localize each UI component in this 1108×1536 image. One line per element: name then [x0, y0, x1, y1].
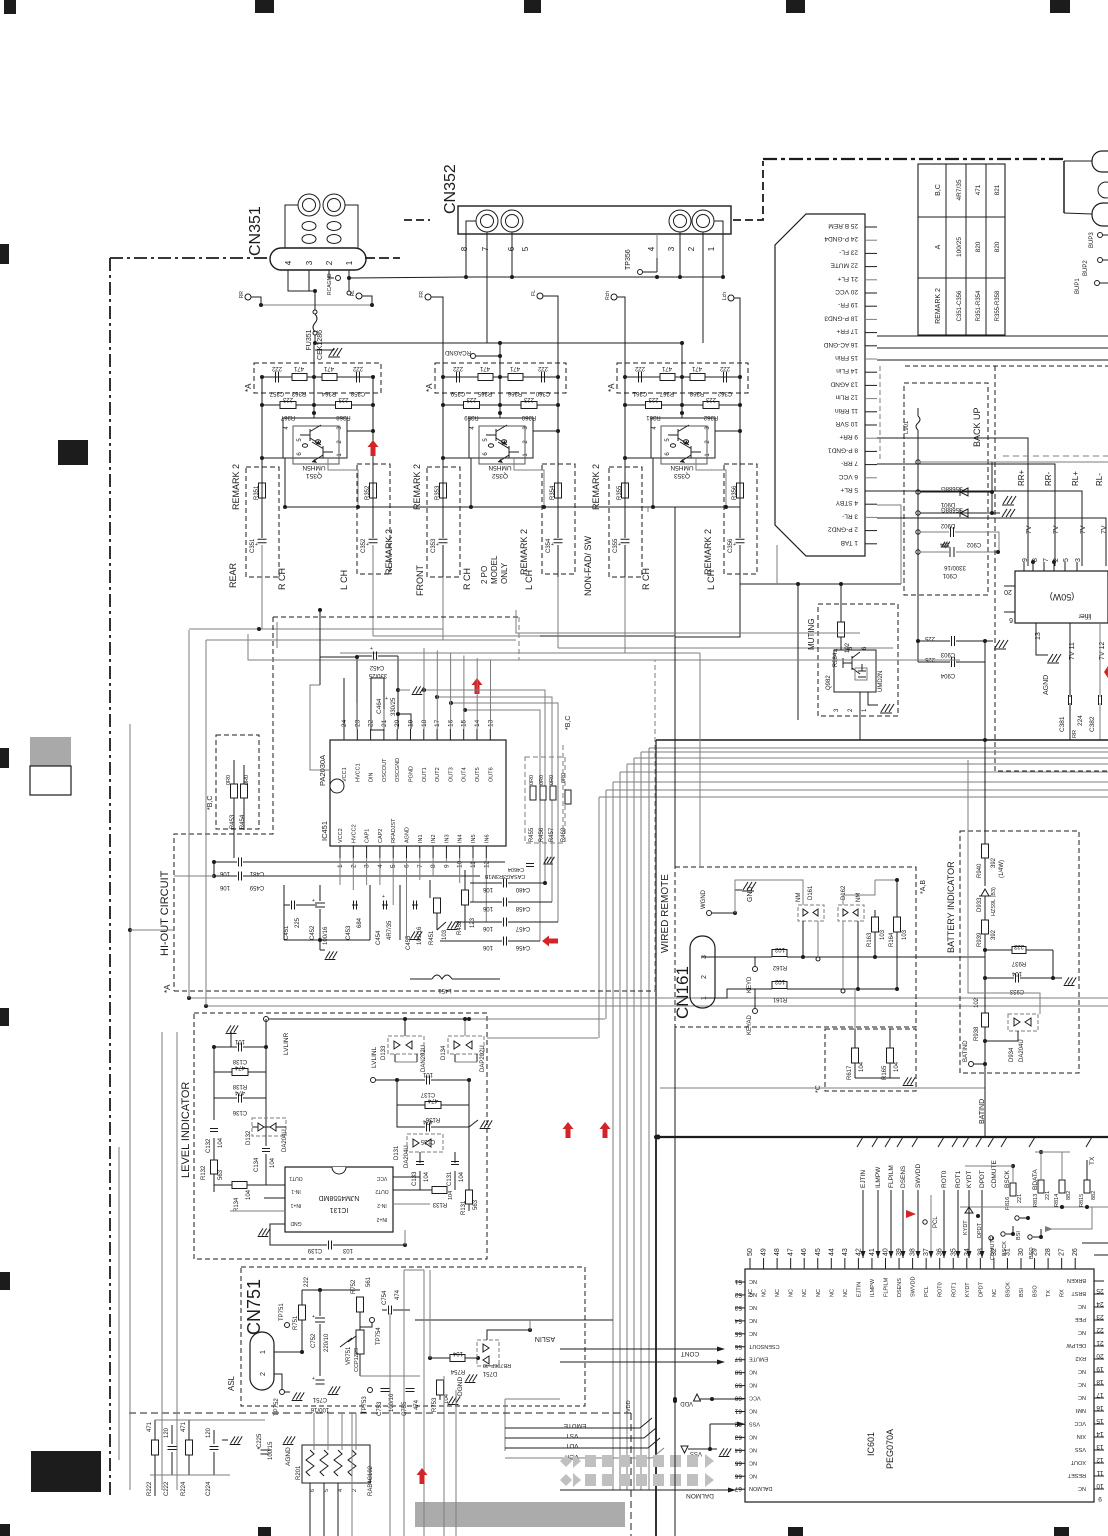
capacitor 222 [723, 372, 725, 383]
svg-text:106: 106 [219, 870, 230, 876]
terminal backup a [916, 460, 920, 464]
svg-text:24 P-GND4: 24 P-GND4 [824, 235, 858, 242]
wire hbus 3 [641, 751, 1108, 753]
svg-text:R360: R360 [521, 414, 536, 420]
svg-text:C134: C134 [254, 1157, 260, 1172]
svg-text:7V: 7V [1053, 525, 1060, 534]
svg-text:REMARK 2: REMARK 2 [591, 464, 601, 510]
wire sig drop [943, 1190, 945, 1258]
pin 50 IC601 stub [749, 1258, 751, 1269]
svg-text:BSO: BSO [1033, 1285, 1039, 1297]
pin 51 IC601 stub [735, 1281, 745, 1283]
wire bsck row [1006, 1226, 1013, 1234]
svg-text:NC: NC [749, 1382, 757, 1388]
wire R134 link [214, 1184, 232, 1186]
wire gnd bus 507 [285, 506, 740, 508]
wire row2 Q352 [443, 404, 558, 406]
diode D751 [477, 1340, 499, 1366]
svg-text:C457: C457 [515, 925, 530, 931]
transistor Q352 inner box [479, 426, 525, 464]
svg-text:4R7/35: 4R7/35 [956, 179, 963, 200]
wire right rail Q351 [372, 377, 374, 538]
svg-text:102: 102 [774, 978, 785, 984]
wire backup right down [984, 641, 986, 740]
svg-text:PEE: PEE [1075, 1316, 1086, 1322]
svg-text:2: 2 [701, 975, 708, 979]
wire out row2 [437, 697, 552, 902]
svg-text:RR+: RR+ [1017, 469, 1026, 486]
capacitor C224 [210, 1446, 219, 1448]
wire left rail Q351 [261, 377, 263, 538]
wire block3 out [647, 507, 649, 512]
svg-text:41: 41 [869, 1248, 876, 1256]
svg-text:NC: NC [1078, 1381, 1086, 1387]
svg-text:7V: 7V [1026, 525, 1033, 534]
dashed box R352 [357, 464, 390, 574]
svg-text:UMH5N: UMH5N [302, 464, 325, 471]
junction row1 Q353 [623, 375, 627, 379]
wire vbus 2 [648, 748, 650, 1490]
pin 56 IC601 stub [735, 1346, 745, 1348]
pin 17 IC451 [436, 729, 438, 740]
wire vbus 6 [619, 772, 621, 1490]
wire hbus 9 [599, 796, 1108, 798]
svg-text:223: 223 [705, 396, 716, 402]
svg-text:Lch: Lch [722, 292, 728, 300]
wire p20 down [397, 690, 399, 729]
svg-text:11: 11 [1096, 1469, 1103, 1476]
svg-text:OSCOUT: OSCOUT [382, 758, 388, 782]
svg-text:7: 7 [1043, 558, 1050, 562]
wire hbus 1 [656, 739, 1108, 741]
svg-text:60: 60 [734, 1395, 742, 1402]
svg-text:222: 222 [304, 1276, 310, 1287]
svg-text:RFADJST: RFADJST [391, 818, 397, 843]
pin 31 IC601 stub [1006, 1258, 1008, 1269]
transistor Q352 symbol a [486, 425, 507, 447]
pin 28 IC601 stub [1047, 1258, 1049, 1269]
pin stub 10 [865, 424, 877, 426]
wire RCAGND to CN352 bus [349, 277, 466, 278]
pin stub 11 [865, 411, 877, 413]
svg-text:DA204U: DA204U [404, 1145, 410, 1168]
pin stub 23 [865, 252, 877, 254]
resistor R136 [425, 1102, 441, 1109]
pin stub 5 [865, 490, 877, 492]
junction row2 Q351 [312, 403, 316, 407]
svg-text:NC: NC [749, 1408, 757, 1414]
wire bl gnd [222, 1439, 228, 1441]
arrowhead sig [876, 1251, 881, 1258]
wire R751 [301, 1290, 303, 1305]
svg-text:C138: C138 [232, 1058, 247, 1064]
wire D133 bot [394, 1054, 396, 1062]
capacitor 222 [356, 372, 358, 383]
capacitor C754 [388, 1306, 390, 1315]
svg-text:TX: TX [1046, 1290, 1052, 1297]
svg-text:51: 51 [734, 1278, 742, 1285]
svg-text:BATTERY INDICATOR: BATTERY INDICATOR [946, 861, 956, 953]
svg-text:ROT0: ROT0 [938, 1282, 944, 1297]
resistor R165 [887, 1048, 894, 1063]
wire main bus 1137 [658, 1136, 1108, 1138]
capacitor C458 [503, 898, 505, 907]
wire bat gray [968, 760, 1040, 1014]
svg-text:KYDT: KYDT [965, 1282, 971, 1297]
svg-text:NC: NC [1078, 1485, 1086, 1491]
svg-text:474: 474 [395, 1289, 401, 1300]
svg-text:*A: *A [607, 383, 616, 392]
pin 41 IC601 stub [871, 1258, 873, 1269]
pin stub 9 [865, 437, 877, 439]
wire lvl top2 [206, 1005, 1108, 1007]
wire asl mid [360, 1375, 420, 1377]
wire emute vert [504, 1399, 506, 1451]
pin 9 IC451b [445, 846, 447, 858]
wire C139 up [404, 1230, 406, 1245]
dashed box HI-OUT left1 [174, 617, 273, 991]
svg-text:VCC: VCC [376, 1175, 387, 1181]
wire Lch in [734, 298, 740, 377]
svg-text:C752: C752 [311, 1333, 317, 1348]
svg-text:D162: D162 [841, 885, 847, 900]
svg-text:6: 6 [1009, 616, 1013, 623]
wire RR+ staircase [877, 438, 1028, 566]
pin 21 IC451 [383, 729, 385, 740]
svg-text:C360: C360 [535, 390, 550, 396]
junction CN352 bus [655, 275, 659, 279]
svg-text:CDMUTE: CDMUTE [991, 1160, 998, 1188]
svg-text:104: 104 [894, 1061, 900, 1072]
svg-text:RR: RR [239, 291, 245, 299]
svg-text:IN2: IN2 [431, 834, 437, 843]
junction row2 Q352 [498, 403, 502, 407]
dashed box R353 [427, 467, 460, 577]
wire d131 down [419, 1152, 421, 1163]
svg-text:0R0: 0R0 [226, 775, 232, 785]
pin stub 7 [865, 464, 877, 466]
svg-text:R352: R352 [365, 485, 371, 500]
svg-text:R937: R937 [1011, 960, 1026, 966]
terminal RCAGND mid [471, 354, 476, 359]
wire tx link [1052, 1207, 1092, 1229]
junction row1 Q351 [260, 375, 264, 379]
wire BUP3 [1103, 234, 1108, 236]
svg-text:IC131: IC131 [330, 1206, 349, 1213]
wire hbus 8 [606, 789, 1108, 791]
wire TP754 [360, 1323, 372, 1327]
svg-text:225: 225 [924, 656, 935, 662]
wire left vert 1 [129, 724, 131, 1490]
capacitor C455 [413, 901, 415, 910]
wire block3 R down [739, 574, 741, 584]
svg-text:C133: C133 [412, 1171, 418, 1186]
wire cn161 row [727, 956, 772, 958]
svg-text:471: 471 [323, 365, 334, 371]
svg-text:RX2: RX2 [1075, 1355, 1086, 1361]
svg-text:NC: NC [802, 1289, 808, 1297]
svg-text:49: 49 [761, 1248, 768, 1256]
capacitor C480 [503, 879, 505, 888]
svg-text:7: 7 [481, 246, 490, 251]
wire nonfad box2 [675, 584, 740, 637]
wire R753 gnd [439, 1395, 441, 1400]
pin 42 IC601 stub [857, 1258, 859, 1269]
svg-text:S5688G: S5688G [941, 506, 963, 512]
wire gc a [319, 940, 321, 950]
junction row2 Q353 [738, 403, 742, 407]
pin 34 IC601 stub [966, 1258, 968, 1269]
svg-text:*A: *A [244, 383, 253, 392]
wire cn751 vert2 [403, 1270, 405, 1536]
svg-text:CONT: CONT [681, 1350, 699, 1357]
terminal BUP2 [1098, 258, 1103, 263]
capacitor C132 [210, 1128, 218, 1130]
wire backup row2 [920, 491, 992, 493]
svg-text:IN+2: IN+2 [376, 1216, 387, 1222]
svg-text:BATIND: BATIND [979, 1099, 986, 1124]
wire p23 left [320, 656, 357, 658]
svg-text:21: 21 [1096, 1339, 1104, 1346]
wire R134 out [247, 1184, 285, 1186]
wire batind [974, 1063, 985, 1065]
transistor Q351 symbol b [312, 440, 333, 463]
svg-text:XIN: XIN [1077, 1433, 1086, 1439]
svg-text:BSI: BSI [1016, 1231, 1022, 1240]
svg-text:38: 38 [910, 1248, 917, 1256]
svg-text:25: 25 [1096, 1287, 1104, 1294]
terminal backup b [916, 490, 920, 494]
svg-text:0R0: 0R0 [549, 775, 555, 785]
terminal Rch [611, 294, 617, 300]
svg-text:223: 223 [338, 396, 349, 402]
terminal Lch [728, 295, 734, 301]
capacitor C353 [439, 538, 448, 540]
svg-text:R451: R451 [429, 930, 435, 945]
wire R138 [214, 1071, 232, 1073]
svg-text:IN4: IN4 [458, 834, 464, 843]
gnd C460 [544, 857, 548, 863]
svg-text:4: 4 [647, 246, 656, 251]
svg-text:R131: R131 [461, 1200, 467, 1215]
svg-text:C136: C136 [232, 1109, 247, 1115]
svg-text:SWVDD: SWVDD [911, 1277, 917, 1298]
pin 19 IC451 [410, 729, 412, 740]
wire C464 top [397, 656, 399, 690]
svg-text:NC: NC [762, 1289, 768, 1297]
pin 65 IC601 stub [735, 1462, 745, 1464]
svg-text:LVLINL: LVLINL [371, 1046, 378, 1068]
resistor R752 [357, 1297, 364, 1312]
junction sgb3 [680, 341, 684, 345]
pin 23 IC451 [356, 729, 358, 740]
svg-text:HVCC2: HVCC2 [351, 824, 357, 843]
svg-text:+: + [312, 898, 315, 904]
svg-text:VCC: VCC [749, 1395, 761, 1401]
svg-text:C131: C131 [447, 1171, 453, 1186]
svg-text:D751: D751 [482, 1370, 497, 1376]
svg-text:224: 224 [1077, 715, 1084, 726]
wire Q right Q351 [347, 430, 373, 432]
svg-text:R365: R365 [477, 390, 492, 396]
IC451 notch [330, 779, 344, 793]
svg-text:NC: NC [1078, 1303, 1086, 1309]
svg-text:471: 471 [293, 365, 304, 371]
wire lvl drop2 [205, 640, 207, 1006]
svg-text:3: 3 [1075, 558, 1082, 562]
registration mark bottom 2 [258, 1527, 271, 1536]
wire C481 [214, 861, 237, 863]
svg-text:17: 17 [1096, 1391, 1104, 1398]
wire lvl top1 [189, 997, 1108, 999]
pin stub 20 [865, 292, 877, 294]
junction WGND [733, 911, 737, 915]
wire RCAGND mid [476, 355, 500, 357]
terminal KYDT2 [965, 1207, 973, 1213]
terminal CDMUTE2 [989, 1236, 993, 1240]
transistor Q982 box [834, 650, 876, 692]
svg-text:392: 392 [991, 857, 997, 868]
svg-text:2: 2 [352, 1489, 358, 1492]
svg-text:L901: L901 [904, 420, 910, 434]
pin 32 IC601 stub [993, 1258, 995, 1269]
pin 45 IC601 stub [817, 1258, 819, 1269]
resistor R163 [872, 917, 879, 932]
wire Q right Q353 [715, 430, 740, 432]
wire sig drop [902, 1190, 904, 1258]
junction Q drop Q352 [469, 505, 473, 509]
resistor R352 [370, 483, 377, 498]
pin stub 12 [865, 398, 877, 400]
pin 13 IC451 [489, 729, 491, 740]
svg-text:C464: C464 [376, 698, 383, 714]
svg-text:FL: FL [531, 290, 537, 296]
svg-text:R814: R814 [1054, 1194, 1060, 1207]
wire vss gnd [710, 1448, 717, 1450]
capacitor C904 [951, 657, 953, 667]
svg-text:+: + [312, 1314, 315, 1320]
terminal BATIND [969, 1062, 974, 1067]
svg-text:AGND: AGND [1043, 675, 1050, 695]
diode D902 [960, 509, 968, 517]
wire IC451 top wires [356, 703, 358, 729]
wire left drop2 [174, 875, 214, 877]
svg-text:*A,B: *A,B [920, 880, 927, 894]
svg-text:CN751: CN751 [244, 1279, 264, 1335]
svg-text:RCAGND: RCAGND [327, 273, 333, 295]
label CDMUTE bus [988, 1137, 994, 1147]
registration mark top 1 [4, 0, 16, 14]
resistor R353 [440, 483, 447, 498]
wire R163 [874, 910, 876, 917]
svg-text:R132: R132 [201, 1165, 207, 1180]
wire CN351 pin2 [329, 270, 334, 278]
terminal backup d [916, 530, 920, 534]
svg-text:104: 104 [459, 1171, 465, 1182]
svg-text:BATIND: BATIND [963, 1040, 969, 1062]
wire RR in [251, 297, 261, 305]
terminal KEYAD [753, 1009, 758, 1014]
svg-text:+: + [385, 696, 388, 702]
wire amp pin11 [1069, 623, 1071, 697]
wire CN751 p1 [274, 1351, 302, 1353]
wire pin RRin right [877, 335, 1108, 337]
svg-text:3 RL-: 3 RL- [842, 512, 858, 519]
svg-text:D132: D132 [246, 1130, 252, 1145]
wire r815 top [1086, 1160, 1088, 1180]
wire TP356 down [656, 258, 658, 272]
resistor R452 [462, 890, 469, 905]
svg-text:C358: C358 [350, 390, 365, 396]
svg-text:C381: C381 [1059, 716, 1066, 732]
IC IC601 box [745, 1269, 1094, 1502]
svg-text:46: 46 [801, 1248, 808, 1256]
wire hbus 4 [634, 757, 1108, 759]
svg-text:64: 64 [734, 1446, 742, 1453]
svg-text:561: 561 [366, 1276, 372, 1287]
svg-text:54: 54 [734, 1317, 742, 1324]
CN351 jack ellipse R2 [302, 235, 316, 244]
svg-text:C901: C901 [942, 572, 957, 578]
calibration gray patch [30, 737, 71, 766]
diode D933 zener [981, 889, 989, 896]
resistor R813 [1038, 1180, 1044, 1193]
resistor R455 [530, 786, 536, 800]
label SWVDD bus [912, 1137, 918, 1147]
svg-text:NC: NC [749, 1304, 757, 1310]
junction RCAGND mid [498, 354, 502, 358]
svg-text:222: 222 [719, 365, 730, 371]
wire R453 up [233, 760, 235, 784]
wire out row1 [424, 690, 545, 883]
diode D161 syms [803, 909, 808, 916]
terminal backup c [916, 511, 920, 515]
pin 29 IC601 stub [1034, 1258, 1036, 1269]
svg-text:684: 684 [357, 917, 363, 928]
pin 55 IC601 stub [735, 1333, 745, 1335]
svg-text:0R0: 0R0 [244, 775, 250, 785]
svg-text:Q353: Q353 [674, 472, 690, 479]
svg-text:225: 225 [295, 917, 301, 928]
wire row2 Q351 [262, 404, 373, 406]
svg-text:471: 471 [691, 365, 702, 371]
wire bl bus [150, 1474, 230, 1476]
svg-text:C137: C137 [420, 1091, 435, 1097]
capacitor 222 [275, 372, 277, 383]
junction C481 l [212, 860, 216, 864]
wire amp pins top [1023, 562, 1025, 571]
wire cn751 vert3 [423, 1270, 425, 1536]
svg-text:DIN: DIN [369, 773, 375, 783]
svg-text:NC: NC [789, 1289, 795, 1297]
svg-text:103: 103 [342, 1247, 353, 1253]
svg-text:RCAGND: RCAGND [444, 349, 471, 355]
label BDATA bus [1029, 1137, 1035, 1147]
svg-text:C352: C352 [361, 538, 367, 553]
wire IC451 p24 [343, 678, 345, 729]
junction Q right Q352 [556, 429, 560, 433]
junction row1 Q352 [556, 375, 560, 379]
wire center drop 2 [699, 653, 701, 867]
pin 40 IC601 stub [885, 1258, 887, 1269]
wire bso row [1033, 1229, 1041, 1237]
pin 53 IC601 stub [735, 1307, 745, 1309]
gray dashed sep [1003, 455, 1108, 457]
svg-text:R134: R134 [234, 1197, 240, 1212]
wire hi coll 4 [516, 610, 860, 633]
dashed box *A network Q351 [254, 363, 381, 393]
svg-text:C755: C755 [402, 1401, 408, 1416]
